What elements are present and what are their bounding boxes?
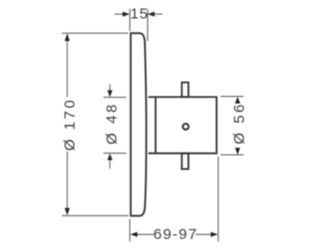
svg-text:Ø 170: Ø 170 xyxy=(62,98,79,151)
svg-text:15: 15 xyxy=(130,6,148,23)
svg-text:Ø 48: Ø 48 xyxy=(103,102,120,145)
svg-text:Ø 56: Ø 56 xyxy=(231,102,248,145)
svg-text:69-97: 69-97 xyxy=(153,226,197,243)
